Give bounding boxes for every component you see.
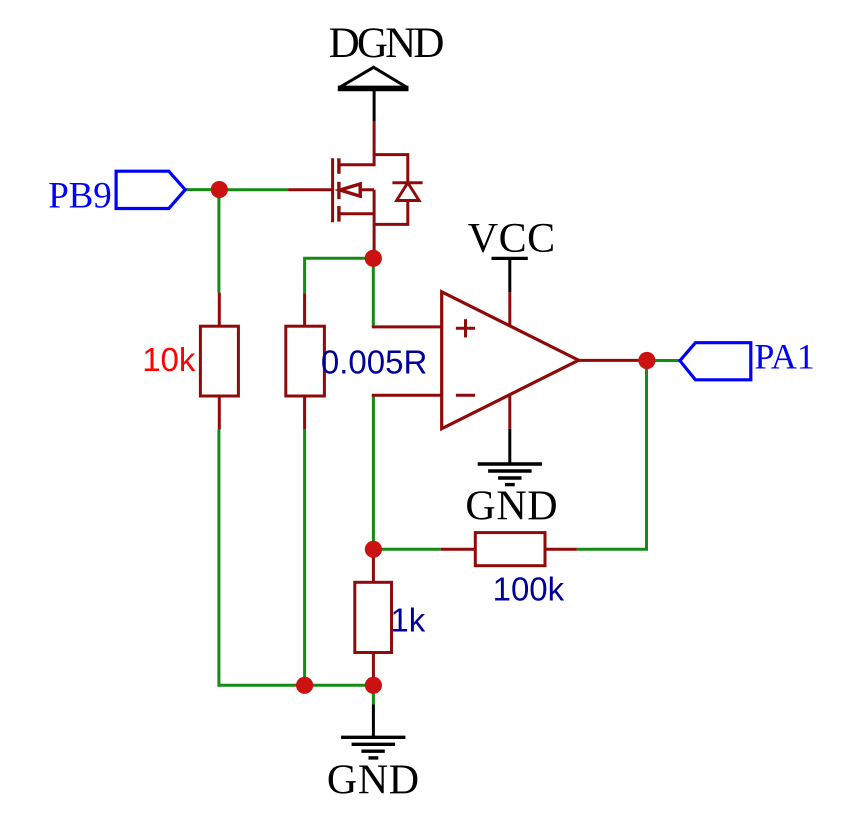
svg-text:GND: GND (465, 484, 558, 530)
junction node A (211, 181, 228, 198)
source vertical to node B (373, 190, 376, 259)
+ input lead (372, 325, 442, 328)
junction node E1 (296, 677, 313, 694)
VCC symbol (492, 258, 528, 292)
GND pin (508, 395, 511, 429)
output lead (579, 359, 647, 362)
source bar (339, 212, 374, 215)
svg-text:100k: 100k (493, 571, 565, 608)
wire node E to bottom GND stub (372, 685, 375, 704)
wire 100k right up to output node D (577, 361, 647, 550)
diode D triangle (397, 183, 420, 201)
junction node B (365, 250, 382, 267)
transistor Q1 MOSFET with body diode (288, 121, 423, 258)
gate plate (331, 158, 334, 222)
diode D anode lead (374, 201, 408, 225)
DGND symbol (338, 67, 409, 121)
channel bar bottom (337, 206, 340, 222)
svg-text:10k: 10k (142, 341, 196, 378)
VCC pin (508, 292, 511, 325)
svg-text:VCC: VCC (468, 216, 556, 262)
wire PB9 to node A (185, 188, 219, 191)
resistor R2 0.005R (286, 293, 325, 429)
ground op-amp GND (478, 429, 542, 485)
wire node A to MOSFET gate (219, 188, 288, 191)
diode D cathode bar (392, 181, 422, 184)
resistor R3 100k (441, 533, 577, 566)
svg-text:1k: 1k (390, 602, 425, 639)
wire 0.005R bottom to bottom net (303, 429, 306, 685)
plus sign (456, 327, 475, 330)
wire node B to op-amp + input (372, 258, 375, 327)
junction node D (638, 352, 655, 369)
drain bar (339, 163, 374, 166)
wire branch to body diode (374, 155, 408, 183)
junction node E2 (365, 677, 382, 694)
port PA1 (680, 343, 751, 380)
resistor R4 1k (355, 549, 392, 685)
gate lead (288, 188, 333, 191)
op-amp U1 (372, 292, 647, 429)
- input lead (372, 394, 442, 397)
wire node C to 100k left (373, 548, 440, 551)
ground bottom GND (341, 705, 405, 758)
minus sign (456, 394, 475, 397)
body arrow line (339, 188, 374, 191)
channel bar top (337, 158, 340, 174)
svg-text:0.005R: 0.005R (321, 343, 427, 380)
junction node C (365, 541, 382, 558)
wire 10k bottom to bottom net (219, 429, 374, 685)
wire node D to PA1 (647, 359, 680, 362)
body arrowhead (340, 184, 360, 196)
wire node B to 0.005R top (305, 258, 374, 293)
drain pin from DGND (373, 121, 376, 166)
wire node A down to R 10k (217, 190, 220, 293)
channel bar middle (337, 182, 340, 199)
port PB9 (116, 171, 185, 208)
svg-text:PA1: PA1 (754, 337, 814, 377)
svg-text:DGND: DGND (329, 20, 444, 67)
svg-text:GND: GND (327, 758, 420, 804)
resistor R1 10k (200, 293, 238, 430)
wire op-amp - input down to node C (372, 395, 375, 549)
svg-text:PB9: PB9 (48, 176, 111, 217)
